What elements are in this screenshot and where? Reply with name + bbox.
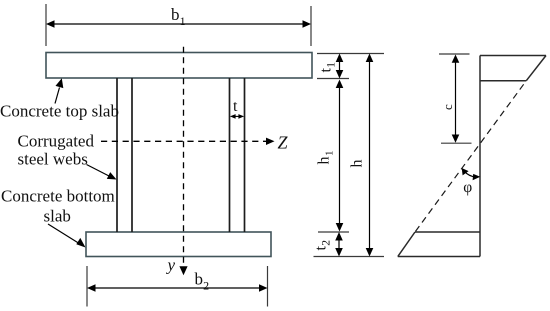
- dimension c arrows: [452, 55, 460, 143]
- label c (rotated): [440, 104, 455, 110]
- svg-text:1: 1: [324, 151, 336, 157]
- label Concrete top slab: [0, 102, 119, 121]
- svg-text:slab: slab: [44, 207, 71, 226]
- dimension b1 extension line left: [45, 4, 47, 46]
- svg-text:h: h: [316, 157, 333, 165]
- Z axis arrowhead: [266, 138, 275, 145]
- label Concrete bottom slab: [1, 187, 115, 226]
- svg-text:2: 2: [203, 279, 209, 293]
- label y: [166, 256, 176, 275]
- label t: [233, 98, 238, 115]
- tick line slab bottom (t1/h1 datum): [317, 78, 349, 80]
- dimension h1 arrows: [336, 80, 344, 232]
- svg-text:1: 1: [326, 62, 338, 68]
- svg-text:Corrugated: Corrugated: [18, 132, 95, 151]
- label b1: [171, 5, 186, 28]
- rotation diagram top edge: [480, 55, 546, 57]
- dimension t double arrow: [230, 114, 244, 119]
- rotation diagram mid line bottom: [415, 231, 480, 233]
- dimension b2 extension line left: [86, 266, 88, 307]
- dimension b1 arrow line: [46, 20, 311, 28]
- svg-text:2: 2: [321, 240, 333, 246]
- left corrugated web line 1: [116, 78, 118, 232]
- rotation diagram bottom edge: [398, 256, 480, 258]
- angle phi arc: [462, 168, 481, 180]
- label phi: [463, 179, 472, 196]
- svg-text:t: t: [233, 98, 238, 115]
- label Corrugated steel webs: [18, 132, 95, 169]
- rotation diagram top slab diagonal: [526, 56, 546, 81]
- label t2 (rotated): [313, 240, 333, 251]
- tick line top (h/t1 datum): [317, 53, 384, 55]
- left corrugated web line 2: [131, 78, 133, 232]
- rotation diagram mid line top: [480, 80, 526, 82]
- label Z: [278, 133, 289, 153]
- svg-text:y: y: [166, 256, 176, 275]
- label h1 (rotated): [316, 151, 336, 165]
- tick line bottom slab top (h1/t2 datum): [318, 231, 349, 233]
- svg-text:b: b: [195, 270, 204, 289]
- svg-text:steel webs: steel webs: [18, 150, 88, 169]
- tick line bottom (h/t2 datum): [314, 256, 385, 258]
- leader arrow to top slab: [55, 78, 63, 103]
- right corrugated web line 2: [244, 78, 246, 232]
- label b2: [195, 270, 210, 293]
- rotation diagram dashed diagonal: [415, 81, 526, 232]
- svg-text:Z: Z: [278, 133, 289, 153]
- dimension b2 extension line right: [267, 266, 269, 307]
- label t1 (rotated): [318, 62, 338, 73]
- dimension c top tick: [439, 53, 470, 55]
- concrete bottom slab: [86, 232, 271, 257]
- leader arrow to bottom slab: [48, 224, 86, 248]
- rotation diagram bottom slab diagonal: [398, 232, 415, 257]
- dimension c bottom tick: [441, 142, 472, 144]
- right corrugated web line 1: [229, 78, 231, 232]
- rotation diagram axis: [479, 56, 481, 257]
- dimension t2 arrows: [335, 232, 343, 257]
- Z axis dashed line: [101, 140, 266, 142]
- leader arrow to web: [87, 165, 117, 180]
- dimension b2 arrow line: [87, 284, 268, 292]
- concrete top slab: [46, 53, 312, 79]
- y axis dashed line: [183, 47, 185, 267]
- label h (rotated): [349, 160, 366, 168]
- y axis arrowhead: [179, 266, 187, 275]
- svg-text:h: h: [349, 160, 366, 168]
- dimension t1 arrows: [336, 54, 344, 79]
- svg-text:b: b: [171, 5, 180, 24]
- svg-text:Concrete top slab: Concrete top slab: [0, 102, 119, 121]
- svg-text:φ: φ: [463, 179, 472, 196]
- svg-text:c: c: [440, 104, 455, 110]
- svg-text:Concrete bottom: Concrete bottom: [1, 187, 115, 206]
- dimension h arrows: [366, 54, 374, 257]
- svg-text:1: 1: [180, 14, 186, 28]
- dimension b1 extension line right: [310, 6, 312, 46]
